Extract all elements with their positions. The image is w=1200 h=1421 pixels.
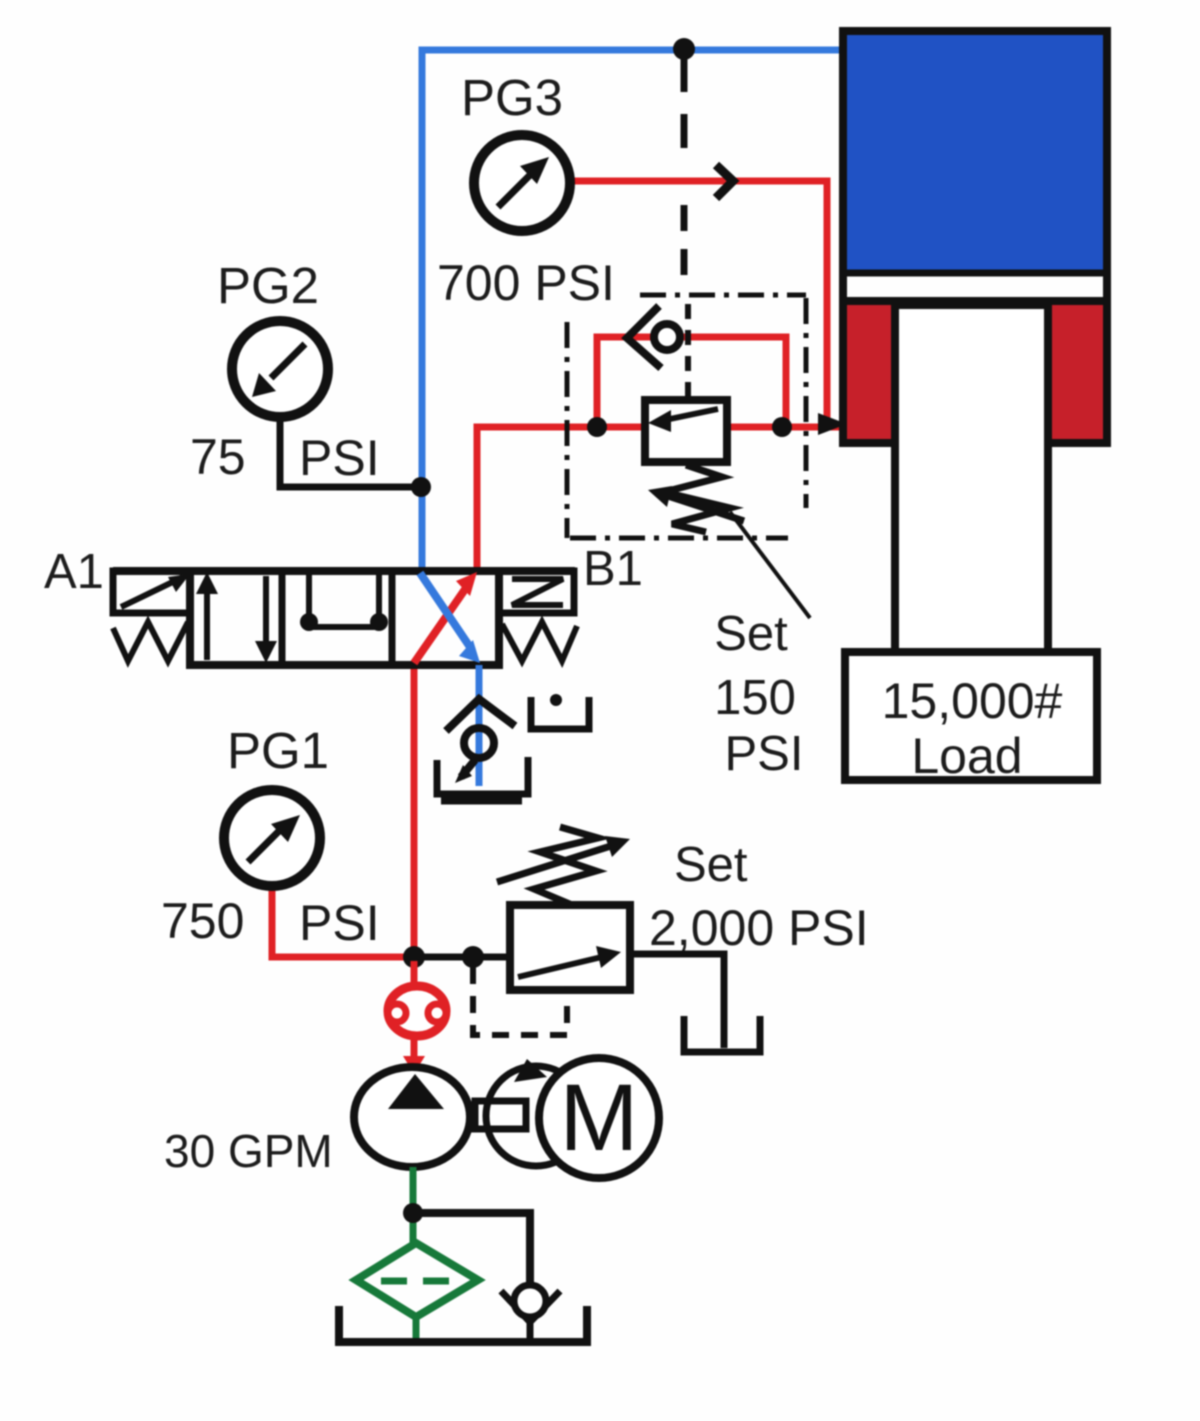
node junction dot relief pilot tap: [462, 946, 484, 968]
gauge PG3: [437, 69, 615, 311]
svg-text:PG1: PG1: [227, 722, 329, 779]
wire red check-valve bypass loop: [597, 337, 786, 427]
wire dashed pilot line from blue line down to counterbalance enclosure: [681, 58, 688, 160]
wire blue supply line from valve port A up and over to cylinder cap end: [422, 50, 843, 571]
spring left: [113, 622, 188, 661]
tank symbol at relief valve drain: [684, 1016, 760, 1052]
node junction dot right of counterbalance valve: [772, 417, 792, 437]
relief valve RV1 body: [510, 905, 630, 990]
pointer line to Set 150 PSI label: [730, 512, 810, 618]
wire blue return through pilot check below valve: [476, 665, 483, 786]
svg-text:PSI: PSI: [299, 895, 380, 951]
node junction dot on blue line (pilot tap): [673, 38, 695, 60]
wire PG2 black stem to blue line: [280, 417, 418, 487]
motor rear circle: [486, 1066, 586, 1166]
orifice / flow indicator in pump line: [388, 961, 446, 1074]
directional valve DV1: [113, 571, 577, 665]
bracket dashes around check valve CV2: [437, 697, 589, 801]
filter F1: [356, 1243, 478, 1317]
wire red vertical from PG3 to cylinder rod-end line: [569, 181, 827, 427]
spring of relief valve: [534, 827, 598, 905]
check valve CV2 below valve: [446, 699, 515, 777]
svg-text:700 PSI: 700 PSI: [437, 255, 615, 311]
crossed position red path: [414, 585, 468, 663]
load box W1: [845, 652, 1097, 784]
barrel outline: [843, 31, 1107, 443]
svg-text:750: 750: [161, 893, 244, 949]
wire red PG1 branch: [272, 886, 414, 957]
node junction dot left of counterbalance valve: [587, 417, 607, 437]
svg-text:2,000 PSI: 2,000 PSI: [649, 900, 869, 956]
coupling between pump and motor: [475, 1101, 526, 1129]
wire dashed pilot inside enclosure to counterbalance valve top: [685, 304, 691, 398]
gauge PG2: [190, 257, 380, 486]
svg-text:150: 150: [714, 671, 796, 725]
svg-text:15,000#: 15,000#: [882, 673, 1063, 729]
svg-text:PSI: PSI: [299, 430, 380, 486]
spring of counterbalance valve: [664, 465, 730, 532]
node junction dot suction branch: [403, 1203, 423, 1223]
adjustment arrow through relief spring: [497, 845, 614, 882]
spring right: [502, 622, 577, 661]
svg-text:PSI: PSI: [725, 727, 804, 781]
svg-text:PG2: PG2: [217, 257, 319, 314]
wire green suction line pump to filter: [410, 1167, 417, 1245]
wire dashed pilot line of relief valve: [473, 967, 567, 1035]
valve top rail: [113, 567, 575, 575]
rod side red fluid left: [846, 303, 892, 441]
motor M1: [539, 1058, 659, 1178]
svg-text:30 GPM: 30 GPM: [164, 1125, 333, 1177]
cap side blue fluid: [846, 34, 1104, 272]
node junction dot PG1 branch: [403, 946, 425, 968]
wire relief valve outlet to drain tank: [630, 954, 724, 1048]
wire green filter to tank: [413, 1317, 420, 1344]
wire arrowhead into cylinder rod port: [818, 413, 847, 435]
solenoid box left: [113, 571, 190, 613]
position A arrows: [204, 580, 210, 660]
tank T1 main reservoir: [339, 1306, 587, 1342]
pump P1: [354, 1067, 470, 1167]
gauge PG1: [161, 722, 380, 951]
svg-text:B1: B1: [583, 542, 643, 596]
svg-text:M: M: [559, 1065, 638, 1171]
svg-text:Load: Load: [911, 728, 1022, 784]
svg-text:Set: Set: [674, 838, 748, 892]
valve body: [190, 571, 499, 665]
svg-text:A1: A1: [44, 545, 104, 599]
crossed position blue path: [420, 573, 472, 650]
solenoid box right: [499, 571, 574, 613]
adjustment arrow through counterbalance spring: [668, 496, 744, 521]
rod side red fluid right: [1052, 303, 1104, 441]
svg-text:Set: Set: [714, 607, 788, 661]
svg-text:75: 75: [190, 429, 246, 485]
wire red pump pressure line below valve: [411, 665, 418, 957]
wire black line to relief valve RV1: [414, 954, 512, 961]
cylinder CYL1: [843, 31, 1107, 652]
counterbalance valve CB1 body: [645, 400, 727, 462]
node junction dot PG2 tap on blue line: [411, 477, 431, 497]
piston: [843, 270, 1107, 277]
wire red rod-end line from valve port B up to counterbalance circuit: [477, 427, 843, 571]
counterbalance assembly dash-dot enclosure: [567, 295, 806, 538]
svg-text:PG3: PG3: [461, 69, 563, 126]
check valve CV1 in bypass loop: [627, 306, 680, 368]
check valve CV3 tank bypass: [501, 1285, 560, 1342]
center position blocked ports: [306, 573, 312, 618]
wire black branch to bypass check valve: [413, 1213, 530, 1288]
rod: [895, 305, 1048, 652]
